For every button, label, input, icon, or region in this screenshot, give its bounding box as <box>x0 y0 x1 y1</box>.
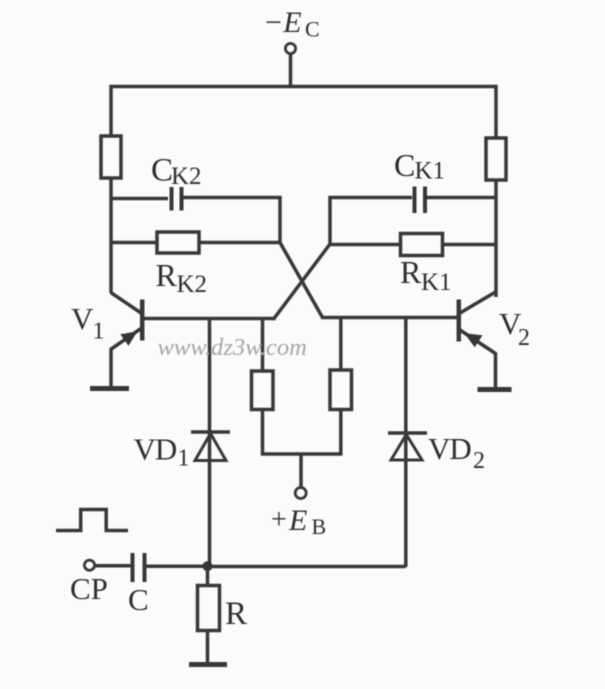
terminal +EB <box>295 488 306 499</box>
ground V2 emitter <box>478 387 512 392</box>
svg-text:VD: VD <box>428 431 471 466</box>
ground R <box>189 662 227 667</box>
wire node to R <box>206 566 210 587</box>
wire right collector vertical <box>494 180 498 297</box>
wire left collector vertical <box>109 178 113 293</box>
label C <box>128 582 149 617</box>
diode VD2 <box>388 433 427 460</box>
svg-text:C: C <box>128 582 149 617</box>
svg-text:K2: K2 <box>171 163 202 190</box>
label R <box>225 596 247 632</box>
resistor R <box>198 586 220 631</box>
capacitor C <box>133 553 145 582</box>
label V1 <box>71 301 105 345</box>
resistor RK1 <box>401 234 443 256</box>
label CK1 <box>394 147 445 185</box>
label VD2 <box>428 431 485 474</box>
resistor mid-left <box>252 371 274 410</box>
svg-text:V: V <box>71 301 94 336</box>
wire CP to C <box>95 564 131 568</box>
svg-text:K2: K2 <box>177 271 208 298</box>
ground V1 emitter <box>90 386 129 391</box>
wire VD2 cathode down <box>404 460 408 567</box>
resistor right collector <box>486 138 506 180</box>
svg-text:K1: K1 <box>421 269 452 296</box>
svg-text:R: R <box>225 596 247 632</box>
wire VD1 anode up <box>208 319 212 463</box>
trigger pulse symbol <box>56 510 128 531</box>
wire V2 base rail <box>321 316 457 320</box>
svg-text:E: E <box>288 504 307 537</box>
svg-text:2: 2 <box>473 448 485 474</box>
capacitor CK1 <box>415 187 426 214</box>
resistor left collector <box>101 136 121 178</box>
svg-text:R: R <box>156 257 178 293</box>
terminal CP <box>85 560 95 570</box>
svg-text:CP: CP <box>70 571 108 606</box>
wire mid-right resistor bottom <box>339 410 343 456</box>
wire top supply rail <box>111 87 496 140</box>
wire VD2 anode up <box>404 318 408 463</box>
wire VD1 cathode down <box>208 461 212 568</box>
label V2 <box>499 306 530 351</box>
svg-text:+: + <box>271 505 287 536</box>
svg-text:C: C <box>151 153 173 189</box>
resistor RK2 <box>157 232 199 253</box>
wire CK1 left <box>330 198 412 245</box>
wire EC terminal to top rail <box>289 54 293 87</box>
label +EB <box>271 504 326 539</box>
label CP <box>70 571 108 606</box>
wire RK2 right <box>199 241 280 245</box>
capacitor CK2 <box>172 187 182 211</box>
diode VD1 <box>191 432 230 461</box>
svg-text:VD: VD <box>134 432 177 467</box>
watermark <box>158 334 307 361</box>
label CK2 <box>151 153 202 191</box>
wire V1 base rail <box>141 317 276 321</box>
wire cross coupling right-to-left <box>274 244 330 319</box>
svg-text:−E: −E <box>263 6 302 39</box>
svg-text:K1: K1 <box>415 158 446 185</box>
svg-text:2: 2 <box>518 325 530 351</box>
wire mid-left resistor top <box>261 319 265 372</box>
svg-text:R: R <box>400 254 422 290</box>
svg-text:1: 1 <box>178 446 190 472</box>
transistor V1 <box>111 293 143 387</box>
wire CK1 right <box>427 196 496 200</box>
wire RK2 left <box>110 241 157 245</box>
wire CK2 left <box>110 197 168 201</box>
svg-text:B: B <box>312 514 327 539</box>
wire EB join <box>261 452 342 456</box>
label VD1 <box>134 432 190 472</box>
svg-text:C: C <box>394 147 415 183</box>
label -EC <box>263 6 320 42</box>
terminal -EC <box>286 44 296 54</box>
wire RK1 right <box>443 243 497 247</box>
wire CK2 right <box>184 198 281 245</box>
svg-text:1: 1 <box>93 319 105 345</box>
svg-text:www.dz3w.com: www.dz3w.com <box>158 334 307 361</box>
wire R to ground <box>206 631 210 664</box>
resistor mid-right <box>330 370 352 410</box>
wire RK1 left <box>330 243 401 247</box>
wire cross coupling left-to-right <box>280 243 323 318</box>
label RK1 <box>400 254 452 296</box>
transistor V2 <box>459 292 496 388</box>
node junction dot <box>203 561 213 571</box>
wire C to node <box>147 565 208 569</box>
wire mid-left resistor bottom <box>261 410 265 456</box>
wire node to VD2 branch <box>208 565 406 569</box>
svg-text:C: C <box>305 17 320 42</box>
wire mid-right resistor top <box>339 318 343 371</box>
wire EB stem <box>299 454 303 488</box>
label RK2 <box>156 257 208 298</box>
